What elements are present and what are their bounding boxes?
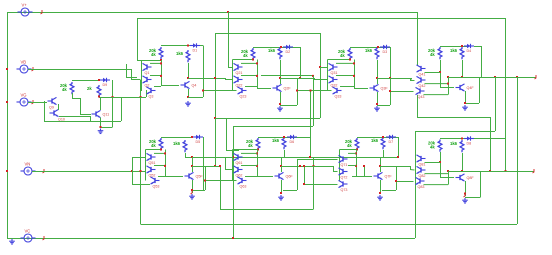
vertical wire x517 <box>517 77 519 224</box>
cell1 Q4 base wire <box>161 85 179 87</box>
link wire y117 <box>417 117 490 119</box>
resistor R9 <box>60 82 74 94</box>
ground below Q11 <box>98 129 104 134</box>
svg-text:4k: 4k <box>430 52 435 57</box>
cell2 T2 base stub <box>225 79 233 81</box>
junction dot cell1 R1 bottom <box>160 59 162 61</box>
transistor Q83 <box>416 177 425 188</box>
svg-text:Q51: Q51 <box>149 161 156 165</box>
cell1 staircase vertical <box>126 64 128 77</box>
junction dot cell5 node riser <box>191 156 193 158</box>
resistor R4 <box>268 47 282 59</box>
cell7 box right wire <box>396 166 398 190</box>
VB wire y79 <box>131 79 140 81</box>
svg-text:D4: D4 <box>467 49 472 53</box>
cell1 top rail wire <box>161 45 190 47</box>
cell1 diode tail wire <box>200 45 203 47</box>
cell7 R2 bottom wire <box>383 150 385 157</box>
cell4 emitter wire <box>465 91 467 103</box>
cell8 diode tail wire <box>474 138 506 140</box>
transistor Q5F splitter <box>185 172 204 179</box>
svg-text:Q7F: Q7F <box>385 175 393 179</box>
svg-text:Q31: Q31 <box>331 71 338 75</box>
cell6 base chain vertical <box>232 150 234 181</box>
transistor Q42 <box>417 76 426 87</box>
resistor R15 <box>345 138 359 150</box>
transistor Q9 <box>48 97 57 109</box>
cell5 box right wire <box>205 166 207 190</box>
vertical wire x320 cell3 T1 feed <box>320 33 322 118</box>
svg-text:1k6: 1k6 <box>176 51 184 56</box>
vertical wire x417 short <box>417 95 419 117</box>
VN wire <box>32 171 146 173</box>
transistor Q41 <box>417 65 426 76</box>
svg-text:1k6: 1k6 <box>450 141 458 146</box>
svg-text:Q2F: Q2F <box>284 87 292 91</box>
cell5 base chain vertical <box>145 150 147 181</box>
transistor Q8F splitter <box>456 174 475 181</box>
resistor R12 <box>173 140 187 152</box>
junction dot VG on left rail <box>6 101 8 103</box>
svg-text:Q33: Q33 <box>335 94 342 98</box>
diode D9 <box>100 78 110 87</box>
cell7 box bottom wire <box>382 190 396 192</box>
vertical wire x100 Q11 collector <box>100 97 102 110</box>
cell8 T3 base stub <box>396 181 414 183</box>
cell2 R1 bottom jog <box>233 59 254 61</box>
cell2 box right wire <box>297 78 299 105</box>
cell7 base chain vertical <box>339 150 341 181</box>
resistor R11 <box>149 138 163 150</box>
transistor Q52 <box>147 166 156 177</box>
svg-text:VB: VB <box>21 60 27 65</box>
cell2 collector tie vertical <box>257 60 259 89</box>
svg-text:Q53: Q53 <box>153 184 160 188</box>
node dot cell6 rail <box>283 136 285 138</box>
vertical wire x505 right side <box>505 18 507 171</box>
pin tick VG wire <box>32 100 34 104</box>
svg-text:Q81: Q81 <box>419 162 426 166</box>
svg-text:Q22: Q22 <box>236 83 243 87</box>
cell3 T3 collector wire <box>340 86 354 88</box>
cell7 out node wire <box>396 166 410 168</box>
junction dot x220 y166 <box>219 165 221 167</box>
diode D3 <box>380 45 390 54</box>
cell3 R1 bottom jog <box>328 59 351 61</box>
cell5 box top wire <box>192 166 205 168</box>
transistor Q71 <box>339 155 348 166</box>
svg-text:1k6: 1k6 <box>365 48 373 53</box>
cell3 T1 base stub <box>320 67 328 69</box>
svg-text:Q42: Q42 <box>419 84 426 88</box>
resistor R7 <box>428 47 442 59</box>
svg-text:4k: 4k <box>62 87 67 92</box>
svg-text:Q5F: Q5F <box>196 175 204 179</box>
riser x146 to T3 base <box>146 90 148 97</box>
svg-text:1k6: 1k6 <box>173 141 181 146</box>
cell6 T3 base stub <box>205 180 237 182</box>
svg-text:Q4: Q4 <box>192 84 197 88</box>
node dot Q11 emitter <box>100 126 102 128</box>
junction dot cell4 T3 tee <box>389 90 391 92</box>
junction dot VB on left rail <box>6 68 8 70</box>
cell6 T3 collector wire <box>245 176 257 178</box>
junction dot cell8 base vert <box>439 161 441 163</box>
vertical wire x121 box <box>121 97 123 121</box>
node dot cell5 out <box>191 165 193 167</box>
node dot cell3 out <box>376 77 378 79</box>
svg-text:D9: D9 <box>103 83 108 87</box>
diode D8 <box>464 136 474 145</box>
jog wire x215 to x220 <box>215 166 220 168</box>
cell7 R1 bottom jog <box>340 149 358 151</box>
output wire J y77 <box>448 77 536 79</box>
resistor R8 <box>450 47 464 59</box>
transistor Q81 <box>417 155 426 166</box>
junction dot cell7 drop <box>397 156 399 158</box>
ground below cell6 splitter <box>278 195 284 200</box>
junction dot cell7 ct1 <box>355 152 357 154</box>
stub wire to cell5 T1 <box>132 157 146 159</box>
junction dot x112 y97 <box>112 96 114 98</box>
VB corner down x140 <box>140 80 142 98</box>
cell7 emitter wire <box>380 180 382 193</box>
cell4 T1 emitter wire <box>425 72 441 74</box>
cell3 emitter wire <box>377 92 379 104</box>
cell2 out jog vertical <box>314 78 316 80</box>
vertical wire x140 long drop <box>140 97 142 224</box>
transistor Q72 <box>339 168 348 179</box>
cell8 box right wire <box>480 171 482 198</box>
cell4 diode tail wire <box>474 46 481 48</box>
cell1 R1 bottom jog <box>137 60 161 62</box>
junction dot x313 y166 <box>313 165 315 167</box>
cell2 out wire <box>297 78 314 80</box>
feedback wire y126 <box>233 126 313 128</box>
cell7 diode drop vertical <box>398 137 400 157</box>
svg-text:Q83: Q83 <box>418 185 425 189</box>
svg-text:Q21: Q21 <box>236 71 243 75</box>
transistor Q7F splitter <box>374 172 393 179</box>
bottom rail wire <box>7 238 415 240</box>
cell7-8 jog vertical <box>410 166 412 170</box>
resistor R10 <box>87 85 101 97</box>
transistor Q11 <box>92 110 110 117</box>
cell8 collector tie vertical <box>448 171 450 185</box>
junction dot cell4 base vert <box>439 71 441 73</box>
Q10 emitter wire <box>59 116 90 118</box>
junction dot x215 y78 <box>214 77 216 79</box>
svg-text:4k: 4k <box>151 143 156 148</box>
cell8 box bottom wire <box>465 197 480 199</box>
node dot cell4 out <box>461 76 463 78</box>
cell4 T2 emitter wire <box>425 83 449 85</box>
junction dot VB T3 node <box>140 96 142 98</box>
node dot cell6 out <box>280 165 282 167</box>
transistor Q22 <box>234 76 243 87</box>
cell4 splitter base wire <box>440 87 454 89</box>
cell5-6 jog vertical <box>225 157 227 170</box>
cell6 splitter base wire <box>257 176 273 178</box>
pin tick bottom rail <box>43 236 45 240</box>
transistor Q4 splitter <box>181 81 197 88</box>
cell5 vertical x203 <box>203 137 205 190</box>
cell2 emitter wire <box>280 92 282 104</box>
cell3 T3 base stub <box>297 90 332 92</box>
cell2 T3 collector wire <box>245 86 257 88</box>
resistor R18 <box>450 140 464 152</box>
junction dot cell6 diode drop <box>309 156 311 158</box>
Q11 emitter wire <box>100 118 102 127</box>
cell3 T2 base stub <box>314 79 328 81</box>
cell4 out jog vertical x410 <box>410 78 412 80</box>
svg-text:Q8F: Q8F <box>467 176 475 180</box>
node dot cell4 emitter <box>464 102 466 104</box>
vertical wire x220 up <box>220 166 222 209</box>
cell5 out wire y157 <box>185 157 398 159</box>
node dot cell7 rail <box>382 136 384 138</box>
cell5 T1 collector wire <box>154 152 165 154</box>
input stage box bottom wire <box>44 121 121 123</box>
rail y18 wire <box>137 18 506 20</box>
svg-text:2k: 2k <box>87 86 92 91</box>
junction dot cell7 diode drop <box>397 156 399 158</box>
cell2 feedback riser x313 <box>313 76 315 126</box>
svg-text:1k6: 1k6 <box>272 138 280 143</box>
junction dot VN x132 <box>131 170 133 172</box>
junction dot x313 y76 <box>312 75 314 77</box>
voltage source V5 clock <box>21 229 36 243</box>
svg-text:Q72: Q72 <box>341 175 348 179</box>
cell7 T3 collector wire <box>352 176 356 178</box>
node dot cell2 out <box>279 77 281 79</box>
transistor Q1 <box>143 63 152 74</box>
cell1 base chain vertical <box>141 60 143 90</box>
cell8 emitter wire <box>465 181 467 196</box>
vertical wire x90 <box>90 116 92 121</box>
junction dot cell3 T3 tee <box>296 90 298 92</box>
svg-text:4k: 4k <box>430 145 435 150</box>
svg-text:Q6F: Q6F <box>286 175 294 179</box>
cell5 top rail wire <box>161 137 193 139</box>
cell6 diode tail wire <box>297 137 310 139</box>
cell1 collector tie vertical <box>161 60 163 85</box>
cell4 R2 bottom wire <box>462 60 464 77</box>
vertical wire x137 to cell1 jog <box>137 18 139 60</box>
node dot cell5 rail <box>191 136 193 138</box>
junction dot cell6 drop <box>309 156 311 158</box>
cell4 collector tie vertical <box>448 77 450 95</box>
cell7 box top wire <box>380 166 396 168</box>
node dot cell3 emitter <box>376 103 378 105</box>
R9 bottom wire <box>72 93 74 98</box>
node dot cell3 rail <box>377 46 379 48</box>
left V+ rail wire <box>7 12 9 238</box>
cell5 collector stub <box>192 166 194 172</box>
cell2 R2 bottom wire <box>280 60 282 78</box>
svg-text:Q43: Q43 <box>418 95 425 99</box>
cell2 collector stub <box>280 78 282 84</box>
cell7 T1 feed riser x297 <box>297 159 299 166</box>
cell8 base vertical <box>440 152 442 178</box>
cell7 T2 collector wire <box>348 165 356 167</box>
junction dot cell5 ct1 <box>164 152 166 154</box>
cell8 R2 bottom wire <box>462 153 464 171</box>
cell3 out jog vertical <box>411 78 413 80</box>
junction dot x233 y157 <box>232 156 234 158</box>
junction dot cell4 ct top <box>447 76 449 78</box>
node dot cell5 emitter <box>191 189 193 191</box>
VB wire into cell1 T3 base <box>141 90 143 92</box>
cell6 box top wire <box>281 166 297 168</box>
cell4 box right wire <box>479 77 481 103</box>
cell7 T1 feed wire <box>297 159 338 161</box>
junction dot cell3 ct2 <box>353 75 355 77</box>
VB corner down x131 <box>131 69 133 80</box>
svg-text:Q9: Q9 <box>49 106 54 110</box>
junction dot cell5 R1 bottom <box>160 149 162 151</box>
junction dot x495 y77 <box>494 76 496 78</box>
resistor R13 <box>246 138 260 150</box>
vertical wire x233 long <box>233 126 235 238</box>
svg-text:Q10: Q10 <box>58 118 65 122</box>
input stage gnd box wire <box>101 127 113 129</box>
cell3 splitter base wire <box>354 88 368 90</box>
svg-text:4k: 4k <box>243 53 248 58</box>
node dot cell1 emitter <box>187 96 189 98</box>
transistor Q3F splitter <box>370 84 389 91</box>
cell4 top rail wire <box>440 46 468 48</box>
cell3 T2 collector wire <box>336 75 354 77</box>
VG wire <box>28 102 47 104</box>
junction dot cell7 riser <box>363 165 365 167</box>
svg-text:VC: VC <box>25 229 31 234</box>
cell1 R2 bottom wire <box>188 63 190 78</box>
cell2 T3 base stub <box>203 90 237 92</box>
resistor R14 <box>272 137 286 149</box>
vertical wire x226 cell6 feed <box>226 118 228 150</box>
cell4 out wire from cell3 <box>390 78 410 80</box>
node dot cell2 emitter <box>279 103 281 105</box>
resistor R1 <box>149 47 163 59</box>
cell7 T3 feed riser x304 <box>304 166 306 184</box>
junction dot cell2 T3 tee <box>202 90 204 92</box>
transistor Q23 <box>238 87 247 98</box>
svg-text:D5: D5 <box>196 140 201 144</box>
node dot cell8 emitter <box>464 193 466 195</box>
node dot cell2 rail <box>280 46 282 48</box>
link wire y131 <box>415 131 495 133</box>
svg-text:Q11: Q11 <box>103 113 110 117</box>
cell7 node riser x364 <box>364 166 366 176</box>
svg-text:D7: D7 <box>389 140 394 144</box>
transistor Q82 <box>417 166 426 177</box>
ground below cell7 splitter <box>377 195 383 200</box>
svg-text:VG: VG <box>21 93 27 98</box>
junction dot cell3 R1 bottom <box>349 59 351 61</box>
cell6 collector tie vertical <box>257 150 259 177</box>
diode tail drop x112 <box>112 80 114 127</box>
svg-text:Q71: Q71 <box>341 163 348 167</box>
junction dot x215 y118 <box>214 117 216 119</box>
junction dot cell6 R1 bottom <box>257 149 259 151</box>
cell7 splitter base wire <box>356 176 372 178</box>
cell8 top rail wire <box>440 138 468 140</box>
cell1 emitter box wire <box>188 97 203 99</box>
resistor R16 <box>371 137 385 149</box>
svg-text:D6: D6 <box>290 140 295 144</box>
ground below Q4F <box>462 105 468 110</box>
diode D1 <box>190 43 200 52</box>
svg-text:4k: 4k <box>248 143 253 148</box>
stub wire to cell5 T3 <box>132 184 150 186</box>
junction dot cell1 x161 a <box>160 62 162 64</box>
cell1 T3 collector wire <box>154 86 161 88</box>
cell6 emitter wire <box>281 180 283 193</box>
node dot cell1 out <box>187 77 189 79</box>
cell2 T1 base stub <box>228 67 233 69</box>
svg-text:D2: D2 <box>286 50 291 54</box>
svg-text:Q41: Q41 <box>419 72 426 76</box>
junction dot VN on left rail <box>6 170 8 172</box>
junction dot cell8 T3 tee <box>395 180 397 182</box>
svg-text:Q4F: Q4F <box>467 86 475 90</box>
pin tick VB wire <box>32 67 34 71</box>
cell5 splitter base wire <box>165 176 183 178</box>
output pin tick J <box>535 75 537 79</box>
junction dot cell2 R1 bottom <box>252 59 254 61</box>
svg-text:D8: D8 <box>467 142 472 146</box>
cell2 base chain vertical <box>232 60 234 91</box>
cell6 node vertical <box>281 157 283 166</box>
cell8 T3 emitter wire <box>424 184 449 186</box>
input stage box left wire <box>44 101 46 121</box>
stub wire cell6 left <box>226 150 239 152</box>
cell6 R2 bottom wire <box>284 150 286 157</box>
Q11 base wire <box>80 114 91 116</box>
cell6 box right wire <box>297 166 299 190</box>
cell3 base chain vertical <box>327 60 329 91</box>
junction dot cell7 R1 bottom <box>356 149 358 151</box>
input stage rail y80 <box>72 80 100 82</box>
cell5 node vertical <box>192 157 194 166</box>
transistor Q3 <box>147 87 156 98</box>
cell5 emitter wire <box>192 180 194 193</box>
junction dot x304 y166 <box>303 165 305 167</box>
cell3 top rail wire <box>350 47 390 49</box>
cell8 T2 emitter wire <box>425 173 449 175</box>
node dot cell1 rail <box>187 45 189 47</box>
node dot cell4 rail <box>461 45 463 47</box>
junction dot cell6 ct2 <box>256 165 258 167</box>
node dot cell8 rail <box>461 138 463 140</box>
cell3 out wire <box>390 78 411 80</box>
cell3 box right wire <box>390 78 392 105</box>
junction dot cell2 diode drop <box>299 77 301 79</box>
transistor Q2 <box>143 76 152 87</box>
node dot cell7 emitter <box>379 192 381 194</box>
cell6 top rail wire <box>258 137 297 139</box>
junction dot x215 y166 <box>214 165 216 167</box>
junction dot cell2 ct1 <box>256 62 258 64</box>
diode D5 <box>193 135 203 144</box>
cell7 collector stub <box>380 166 382 172</box>
voltage source V2 VB <box>17 60 32 74</box>
output pin tick K <box>533 169 535 173</box>
svg-text:Q1: Q1 <box>145 71 150 75</box>
svg-text:1k6: 1k6 <box>371 138 379 143</box>
long bottom wire y224 <box>141 224 518 226</box>
